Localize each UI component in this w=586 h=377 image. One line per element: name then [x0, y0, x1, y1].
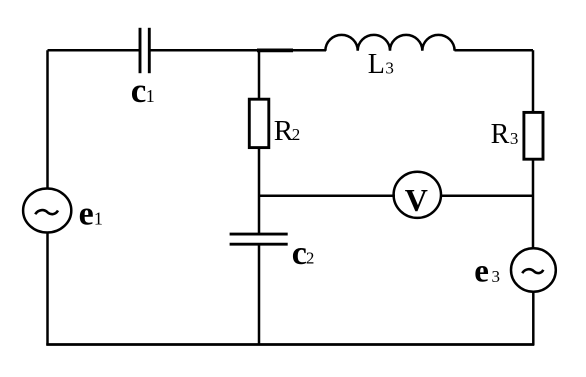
svg-text:R: R — [491, 119, 510, 150]
svg-text:3: 3 — [510, 129, 519, 148]
svg-text:c: c — [292, 235, 307, 272]
svg-text:1: 1 — [146, 86, 155, 106]
svg-text:1: 1 — [94, 208, 103, 228]
svg-text:3: 3 — [385, 59, 394, 78]
svg-text:c: c — [131, 71, 147, 110]
svg-text:3: 3 — [492, 267, 501, 286]
svg-text:e: e — [79, 195, 94, 232]
svg-text:2: 2 — [306, 248, 315, 267]
svg-text:e: e — [474, 253, 489, 289]
svg-text:V: V — [405, 182, 428, 218]
svg-text:2: 2 — [292, 125, 301, 144]
svg-text:L: L — [368, 49, 385, 80]
